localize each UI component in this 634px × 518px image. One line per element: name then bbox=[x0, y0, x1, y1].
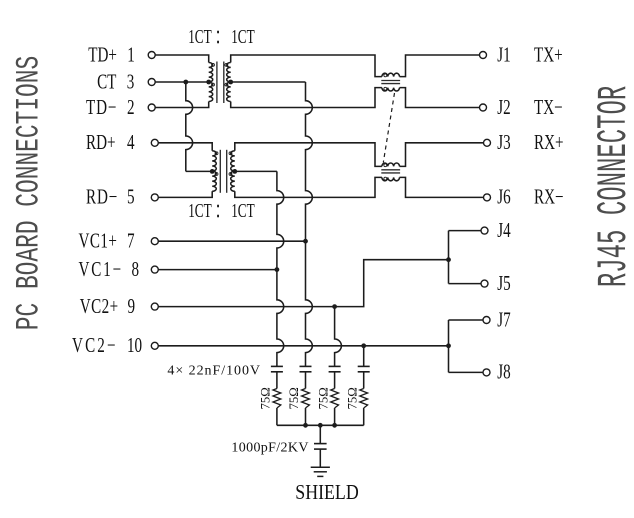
transformer T2 primary phase dot (upper) bbox=[215, 152, 218, 155]
pin terminal 8 circle bbox=[151, 266, 158, 273]
wire T2 secondary bottom to choke L2 left (RX- row) bbox=[235, 177, 382, 197]
pin terminal 4 circle bbox=[151, 139, 158, 146]
pin terminal 2 circle bbox=[148, 104, 155, 111]
choke CM2 upper winding bbox=[382, 163, 400, 166]
wire bus line3 from VC2+ junction down to C3 (hops VC2- row) bbox=[335, 307, 342, 367]
svg-text:75Ω: 75Ω bbox=[287, 387, 301, 409]
ground SHIELD symbol bbox=[311, 466, 330, 468]
svg-text:J3: J3 bbox=[497, 131, 510, 154]
svg-text:J8: J8 bbox=[497, 360, 510, 383]
svg-text:3: 3 bbox=[127, 70, 135, 93]
svg-text:TD−: TD− bbox=[86, 95, 117, 118]
pin terminal 1 circle bbox=[148, 52, 155, 59]
transformer T2 primary phase dot (lower) bbox=[215, 173, 218, 176]
node VC1+ junction on bus line2 bbox=[303, 239, 308, 244]
wire RD- pin5 to T2 primary bottom bbox=[158, 191, 212, 197]
svg-text:J4: J4 bbox=[497, 219, 510, 242]
wire CT branch down to T2 primary center tap (hops TD- and RD+ rows) bbox=[186, 82, 212, 171]
svg-text:J1: J1 bbox=[497, 43, 510, 66]
svg-text:VC2+: VC2+ bbox=[80, 295, 119, 318]
transformer T1 primary phase dot (lower) bbox=[212, 83, 215, 86]
node CT branch junction bbox=[183, 80, 188, 85]
wire T1 secondary top to choke L1 left bbox=[231, 55, 382, 77]
node rail-R2 junction bbox=[303, 423, 308, 428]
wire TD+ pin1 to T1 primary top bbox=[155, 55, 209, 63]
resistor R1 bottom lead bbox=[276, 408, 278, 425]
wire J4/J5 junction to VC2+ bus (via line4 upper segment) bbox=[335, 260, 449, 307]
wire choke CM2 upper right to J3 bbox=[400, 143, 484, 167]
transformer T2 secondary winding bbox=[231, 151, 235, 191]
capacitor C2 22nF bbox=[300, 365, 312, 367]
node VC2+ junction on bus line3 bbox=[332, 304, 337, 309]
pin terminal 10 circle bbox=[151, 342, 158, 349]
svg-text:CT: CT bbox=[97, 70, 116, 93]
wire VC2+ pin9 row to bus line3 bbox=[158, 306, 334, 308]
pin terminal J3 circle bbox=[484, 139, 491, 146]
svg-text:J7: J7 bbox=[497, 308, 510, 331]
wire VC2- pin10 row to J7/J8 tie point bbox=[158, 345, 448, 347]
wire J7/J8 tie vertical bbox=[449, 320, 484, 372]
svg-text:8: 8 bbox=[132, 258, 140, 281]
wire TD- pin2 to T1 primary bottom bbox=[155, 102, 209, 108]
svg-text:2: 2 bbox=[127, 95, 135, 118]
transformer T1 primary winding bbox=[209, 63, 213, 102]
wire bus line4 from VC2- junction down to C4 bbox=[363, 346, 365, 367]
choke CM1 upper winding bbox=[382, 73, 400, 76]
transformer T1 core bbox=[216, 62, 218, 104]
wire choke CM1 upper right to J1 bbox=[400, 55, 480, 77]
resistor R3 75ohm zigzag bbox=[331, 389, 339, 409]
node VC2- junction on bus line4 bbox=[361, 343, 366, 348]
wire choke CM1 lower right to J2 bbox=[400, 88, 480, 108]
svg-text:RD−: RD− bbox=[86, 185, 118, 208]
wire VC1+ pin7 row to bus line2 bbox=[158, 240, 305, 242]
transformer T1 secondary phase dot (upper) bbox=[225, 63, 228, 66]
svg-text:1: 1 bbox=[127, 43, 135, 66]
choke CM1 upper phase dot bbox=[384, 74, 387, 77]
svg-text:J6: J6 bbox=[497, 185, 510, 208]
node T2 secondary center tap bbox=[232, 169, 237, 174]
choke CM2 core bbox=[381, 169, 400, 171]
wire choke CM2 lower right to J6 bbox=[400, 177, 484, 197]
pin terminal 5 circle bbox=[151, 194, 158, 201]
choke CM1 lower winding bbox=[382, 88, 400, 91]
wire J4/J5 tie vertical bbox=[449, 231, 482, 284]
svg-text:VC2−: VC2− bbox=[72, 334, 118, 357]
capacitor C4 22nF bbox=[358, 365, 370, 367]
svg-text:4× 22nF/100V: 4× 22nF/100V bbox=[167, 364, 261, 379]
node J7/J8 junction on VC2- row bbox=[446, 343, 451, 348]
svg-text:RX+: RX+ bbox=[534, 131, 564, 154]
wire CT pin3 row bbox=[155, 81, 209, 83]
wire T1 secondary bottom to choke L1 left (TX- row) bbox=[231, 88, 382, 108]
svg-text:75Ω: 75Ω bbox=[316, 387, 330, 409]
svg-text:RX−: RX− bbox=[534, 185, 564, 208]
resistor R4 bottom lead bbox=[363, 408, 365, 425]
transformer T2 secondary phase dot (upper) bbox=[229, 152, 232, 155]
svg-text:PC BOARD CONNECTIONS: PC BOARD CONNECTIONS bbox=[12, 56, 48, 330]
node T2 primary center tap bbox=[210, 169, 215, 174]
pin terminal J8 circle bbox=[483, 369, 490, 376]
svg-text:TX+: TX+ bbox=[534, 43, 563, 66]
svg-text:9: 9 bbox=[128, 295, 136, 318]
svg-text:TX−: TX− bbox=[534, 95, 563, 118]
svg-text:1000pF/2KV: 1000pF/2KV bbox=[231, 440, 308, 455]
node VC1- junction on bus line1 bbox=[275, 267, 280, 272]
svg-text:4: 4 bbox=[127, 131, 135, 154]
transformer T1 primary phase dot (upper) bbox=[212, 63, 215, 66]
svg-text:10: 10 bbox=[127, 334, 142, 357]
pin terminal 9 circle bbox=[151, 303, 158, 310]
svg-text:5: 5 bbox=[127, 185, 135, 208]
svg-text:VC1+: VC1+ bbox=[79, 229, 118, 252]
svg-text:SHIELD: SHIELD bbox=[295, 482, 358, 505]
svg-text:TD+: TD+ bbox=[88, 43, 117, 66]
pin terminal J7 circle bbox=[483, 317, 490, 324]
pin terminal J6 circle bbox=[484, 194, 491, 201]
resistor R2 bottom lead bbox=[305, 408, 307, 425]
pin terminal J5 circle bbox=[481, 280, 488, 287]
resistor R1 75ohm zigzag bbox=[273, 389, 281, 409]
pin terminal J1 circle bbox=[480, 52, 487, 59]
pin terminal 7 circle bbox=[151, 238, 158, 245]
capacitor C3 22nF bbox=[329, 365, 341, 367]
choke CM1 lower phase dot bbox=[384, 87, 387, 90]
svg-text:75Ω: 75Ω bbox=[345, 387, 359, 409]
node T1 primary center tap bbox=[206, 80, 211, 85]
pin terminal J4 circle bbox=[481, 227, 488, 234]
wire RD+ pin4 to T2 primary top bbox=[158, 143, 212, 151]
resistor R2 75ohm zigzag bbox=[302, 389, 310, 409]
svg-text:7: 7 bbox=[127, 229, 135, 252]
choke CM1 core bbox=[381, 80, 400, 82]
node J4/J5 junction bbox=[446, 257, 451, 262]
svg-text:RJ45 CONNECTOR: RJ45 CONNECTOR bbox=[592, 86, 634, 287]
svg-text:1CT ： 1CT: 1CT ： 1CT bbox=[188, 25, 255, 47]
pin terminal J2 circle bbox=[480, 104, 487, 111]
wire bus line2 from T1 secondary CT down to C2 (hops TX-, RX+, RX-, VC2+, VC2- rows) bbox=[231, 81, 306, 83]
wire VC1- pin8 row to bus line1 bbox=[158, 269, 277, 271]
svg-text:VC1−: VC1− bbox=[79, 258, 124, 281]
pin terminal 3 circle bbox=[148, 79, 155, 86]
resistor R4 75ohm zigzag bbox=[360, 389, 368, 409]
wire bottom rail joining R1-R4 bbox=[277, 424, 364, 426]
node rail-R3 junction bbox=[332, 423, 337, 428]
wire T2 secondary top to choke L2 left (RX+ row) bbox=[235, 143, 382, 167]
wire bus line1 from T2 secondary CT down to C1 (hops RX-, VC1+, VC2+, VC2- rows) bbox=[235, 170, 277, 172]
node rail-center junction bbox=[318, 423, 323, 428]
svg-text:RD+: RD+ bbox=[86, 131, 116, 154]
transformer T2 primary winding bbox=[212, 151, 216, 191]
choke CM2 lower winding bbox=[382, 177, 400, 180]
transformer T1 secondary winding bbox=[227, 63, 231, 102]
transformer T2 secondary phase dot (lower) bbox=[229, 173, 232, 176]
choke CM2 upper phase dot bbox=[384, 164, 387, 167]
svg-text:J5: J5 bbox=[497, 272, 510, 295]
svg-text:75Ω: 75Ω bbox=[259, 387, 273, 409]
capacitor C5 1000pF/2KV bbox=[319, 425, 321, 443]
transformer T1 secondary phase dot (lower) bbox=[225, 83, 228, 86]
choke CM2 lower phase dot bbox=[384, 177, 387, 180]
coupling dashed line between CM1 and CM2 bbox=[383, 93, 394, 163]
svg-text:1CT ： 1CT: 1CT ： 1CT bbox=[188, 199, 255, 221]
resistor R3 bottom lead bbox=[334, 408, 336, 425]
capacitor C1 22nF bbox=[271, 365, 283, 367]
transformer T2 core bbox=[219, 150, 221, 193]
svg-text:J2: J2 bbox=[497, 95, 510, 118]
node T1 secondary center tap bbox=[228, 80, 233, 85]
